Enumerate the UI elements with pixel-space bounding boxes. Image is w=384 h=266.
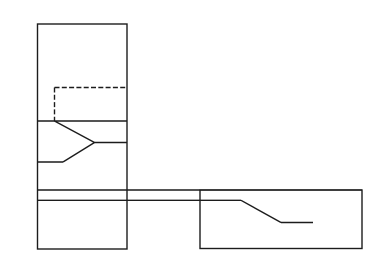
lower diagonal bbox=[63, 143, 95, 163]
tall rectangle body bbox=[38, 24, 128, 249]
upper diagonal bbox=[55, 121, 95, 143]
lead line horizontal bbox=[38, 199, 242, 201]
lower horizontal bbox=[38, 161, 64, 163]
point horizontal bbox=[95, 142, 128, 144]
horizontal divider bbox=[38, 120, 128, 122]
lead line end horizontal bbox=[281, 222, 313, 224]
long horizontal line bbox=[38, 189, 363, 191]
lead line diagonal bbox=[241, 200, 281, 222]
wide rectangle body bbox=[200, 190, 362, 249]
dashed left edge bbox=[54, 88, 56, 122]
dashed top edge bbox=[55, 87, 128, 89]
